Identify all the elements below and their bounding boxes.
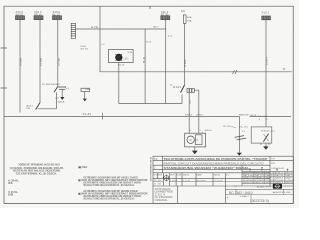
ground under motor xyxy=(192,151,198,155)
title block small cells row 4 xyxy=(154,173,230,176)
wire from X4 down xyxy=(165,20,167,104)
switch S1 blade (upper) xyxy=(54,87,58,93)
dense revision table right xyxy=(243,172,293,185)
capacitor C1 xyxy=(59,86,65,89)
svg-text:KL.15M/30/61: KL.15M/30/61 xyxy=(155,197,174,199)
ground under R2 xyxy=(83,99,87,102)
svg-text:ADAM OPEL: ADAM OPEL xyxy=(257,185,272,188)
svg-text:X12 1: X12 1 xyxy=(262,13,270,15)
svg-text:F22 ENTFERNEN. KL.30 GESCH.: F22 ENTFERNEN. KL.30 GESCH. xyxy=(16,174,57,176)
note item right column top xyxy=(78,166,87,169)
Opel logo xyxy=(273,184,282,189)
svg-text:⊓ 30 KL: ⊓ 30 KL xyxy=(8,179,20,182)
svg-text:SH12: SH12 xyxy=(185,115,194,117)
svg-text:L.10 1: L.10 1 xyxy=(123,58,129,60)
svg-text:GALA: GALA xyxy=(57,101,65,104)
ground under S3 xyxy=(263,146,269,149)
wire from X2 down xyxy=(39,20,41,103)
svg-text:OPEL-Nr 90: OPEL-Nr 90 xyxy=(271,167,285,170)
enclosure boundary line xyxy=(4,115,291,117)
wire from bus down at x=145 xyxy=(144,29,146,104)
svg-text:SCHUTZVERMERK DIN 34: SCHUTZVERMERK DIN 34 xyxy=(149,156,152,181)
svg-text:BEITEN AN DER ANLAGE SICHERUNG: BEITEN AN DER ANLAGE SICHERUNG xyxy=(13,170,60,173)
note paragraph right 1 xyxy=(78,177,148,186)
wire coil bottom xyxy=(188,92,190,116)
wire S2 output to GALA wire xyxy=(38,108,57,110)
note item 2 xyxy=(8,179,20,185)
svg-text:ACHTUNG/AC: ACHTUNG/AC xyxy=(155,188,171,191)
connector strip ladder X6 xyxy=(71,23,75,38)
svg-text:Y-KADJ: Y-KADJ xyxy=(240,195,249,198)
relay switch blade xyxy=(181,85,185,93)
svg-text:LEHRBETRIEB: LEHRBETRIEB xyxy=(155,192,173,194)
resistor R2 xyxy=(81,88,90,91)
svg-text:NAME: NAME xyxy=(197,173,203,176)
wire from top border down at x=100 xyxy=(99,6,101,72)
svg-text:0.5 SW: 0.5 SW xyxy=(41,57,43,66)
svg-text:NORM: NORM xyxy=(177,174,182,176)
svg-text:M100: M100 xyxy=(204,130,212,132)
wire from X3 down xyxy=(57,20,59,87)
horizontal wire y=103.5 xyxy=(119,103,182,105)
svg-text:SEDLACEK: SEDLACEK xyxy=(197,179,207,182)
projection symbol xyxy=(163,175,170,182)
svg-text:DATUM: DATUM xyxy=(214,173,220,176)
note block bottom-left xyxy=(10,164,64,176)
svg-text:KL.31: KL.31 xyxy=(239,126,249,128)
capacitor C2 on ground wire xyxy=(223,117,246,153)
svg-text:A3023-L86: A3023-L86 xyxy=(273,191,292,194)
svg-text:EIN: EIN xyxy=(26,108,30,110)
right header cells xyxy=(271,159,285,170)
svg-text:▣ SH: ▣ SH xyxy=(78,166,87,169)
wire from lamp down xyxy=(118,63,120,104)
svg-text:KL.30: KL.30 xyxy=(258,116,269,118)
svg-text:GET.4: GET.4 xyxy=(285,182,293,184)
revision arrows xyxy=(249,167,288,171)
wire R2 to ground xyxy=(84,92,86,99)
svg-text:1 RT: 1 RT xyxy=(185,58,187,67)
bus wire (horizontal) xyxy=(76,28,166,30)
svg-text:SCHALTUNG BEACHTEN! KL.30 GESC: SCHALTUNG BEACHTEN! KL.30 GESCH. xyxy=(83,197,134,200)
svg-text:[1] GESCH. ZUENDUNG ANLIEGEND.: [1] GESCH. ZUENDUNG ANLIEGEND. VOR AR- xyxy=(10,167,64,170)
drawing frame ticks xyxy=(1,6,294,203)
svg-text:GEPR.: GEPR. xyxy=(170,174,175,176)
wire from X1 down xyxy=(19,20,21,113)
svg-text:4.10.99: 4.10.99 xyxy=(170,180,178,182)
svg-text:S100.10: S100.10 xyxy=(261,131,276,133)
pin stub at x=102.6 xyxy=(102,113,104,120)
svg-text:BC 7362 / 8410: BC 7362 / 8410 xyxy=(229,191,253,195)
lamp L10 xyxy=(115,54,129,61)
connector X4 xyxy=(161,12,170,19)
svg-text:R.101: R.101 xyxy=(173,87,182,89)
wire S1 down xyxy=(55,92,57,109)
note paragraph right 2 xyxy=(78,191,148,201)
connector X3 xyxy=(53,12,62,19)
svg-text:DATUM: DATUM xyxy=(183,173,189,176)
svg-text:13023733/ 5): 13023733/ 5) xyxy=(250,199,269,203)
wire coil right xyxy=(194,90,199,116)
svg-text:30 15: 30 15 xyxy=(80,49,89,51)
svg-text:SH10: SH10 xyxy=(196,115,204,117)
title block xyxy=(153,156,293,203)
svg-text:M: M xyxy=(190,138,192,142)
svg-text:ZV ENTRIEGELT: ZV ENTRIEGELT xyxy=(42,84,61,86)
wire C1 to ground xyxy=(61,89,63,97)
note item 3 xyxy=(8,191,19,197)
svg-text:MASSE: MASSE xyxy=(239,114,250,117)
svg-text:TYP: TYP xyxy=(271,159,276,161)
ground under C2 wire xyxy=(237,153,242,156)
long horizontal wire 30-line xyxy=(100,71,292,73)
switch box S3 (bottom right) xyxy=(251,127,276,146)
svg-text:GETR 2: GETR 2 xyxy=(266,182,274,184)
wire motor to ground xyxy=(194,147,196,151)
relay coil K1 xyxy=(187,88,194,92)
connector X5 (top right) xyxy=(262,13,271,20)
svg-text:9.11.99: 9.11.99 xyxy=(183,180,191,182)
svg-text:30A: 30A xyxy=(187,16,192,19)
connector X1 (top left) xyxy=(16,12,25,19)
svg-text:GETR 45: GETR 45 xyxy=(255,182,264,184)
title block small cells row 5 xyxy=(154,179,223,185)
ground under C1 xyxy=(60,97,64,100)
wire from fuse F1 down to relay switch xyxy=(184,23,186,85)
svg-text:15A: 15A xyxy=(187,19,192,22)
svg-text:2.5 RT: 2.5 RT xyxy=(267,56,269,65)
motor M1 pump xyxy=(185,116,213,146)
svg-text:VORSICHT! SPANNUNG AUCH BEI AU: VORSICHT! SPANNUNG AUCH BEI AUS- xyxy=(18,164,60,167)
wire from X5 down xyxy=(265,20,267,127)
switch S2 blade (lower) xyxy=(36,103,40,110)
wire blade output down xyxy=(181,94,183,103)
svg-text:KL31: KL31 xyxy=(223,126,231,128)
svg-text:0.5 GE: 0.5 GE xyxy=(58,57,60,66)
svg-text:2.2/2.4: 2.2/2.4 xyxy=(155,194,166,196)
svg-text:KL.31: KL.31 xyxy=(83,114,93,116)
lamp box E1 xyxy=(109,50,134,63)
svg-text:GETR 12 KW: GETR 12 KW xyxy=(243,182,254,184)
svg-text:22.11.99: 22.11.99 xyxy=(214,180,223,182)
connector X2 xyxy=(34,12,43,19)
svg-text:MSTE: MSTE xyxy=(158,174,163,176)
svg-text:⊓ 15 KL: ⊓ 15 KL xyxy=(8,191,19,194)
svg-text:STANDHEIZUNG WASSER "ZUHEIZER": STANDHEIZUNG WASSER "ZUHEIZER" DIESEL xyxy=(164,166,250,170)
ACHTUNG note in title block xyxy=(155,188,174,202)
break mark on 30-line xyxy=(233,70,238,74)
svg-text:0.5 BR: 0.5 BR xyxy=(21,58,23,66)
svg-text:SCHALTUNG BEACHTEN! KL.30 GESC: SCHALTUNG BEACHTEN! KL.30 GESCH. xyxy=(83,184,134,187)
svg-text:TEILSTROMLAUFPLAN/SCHEMA DE PR: TEILSTROMLAUFPLAN/SCHEMA DE PRINCIPE PAR… xyxy=(164,157,268,161)
fuse F1 xyxy=(181,11,192,24)
wire S3 to ground xyxy=(265,143,267,146)
svg-text:ORIGINAL: ORIGINAL xyxy=(155,199,169,202)
